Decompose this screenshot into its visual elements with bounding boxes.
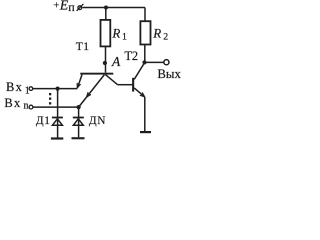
svg-text:Д: Д bbox=[89, 115, 97, 127]
transistor T1 emitter N bbox=[79, 75, 105, 108]
transistor T1 emitter 1 bbox=[77, 75, 82, 89]
svg-text:Т: Т bbox=[76, 41, 83, 53]
terminal +Ep (slashed circle) bbox=[77, 4, 84, 11]
wire R2 drop from rail bbox=[144, 8, 146, 22]
label R2 bbox=[152, 25, 168, 42]
label T1 bbox=[76, 41, 90, 53]
wire top rail bbox=[82, 7, 145, 9]
svg-text:R: R bbox=[111, 26, 120, 41]
ground bar under T2 bbox=[140, 131, 151, 133]
wire output bbox=[145, 61, 164, 63]
svg-text:1: 1 bbox=[25, 85, 30, 96]
svg-text:1: 1 bbox=[44, 115, 50, 127]
node A dot bbox=[103, 61, 107, 65]
wire R1 to T1 base bbox=[105, 46, 107, 72]
transistor T1 collector bbox=[105, 75, 117, 85]
svg-text:n: n bbox=[24, 101, 29, 112]
junction dot Vxn/DN bbox=[77, 105, 81, 109]
svg-text:Д: Д bbox=[36, 115, 44, 127]
wire DN down bbox=[78, 107, 80, 137]
resistor R1 bbox=[101, 20, 111, 47]
svg-text:N: N bbox=[97, 115, 105, 127]
wire T1 collector to T2 base bbox=[118, 84, 133, 86]
svg-text:+: + bbox=[53, 0, 59, 12]
diode DN cathode bar bbox=[73, 117, 84, 119]
svg-text:1: 1 bbox=[83, 41, 89, 53]
diode DN triangle (apex up) bbox=[73, 119, 83, 126]
arrow on T2 emitter bbox=[140, 92, 145, 96]
svg-text:п: п bbox=[68, 0, 75, 14]
wire input Vxn bbox=[33, 106, 79, 108]
output terminal circle bbox=[164, 60, 169, 65]
transistor T2 collector bbox=[134, 63, 144, 80]
svg-text:Вх: Вх bbox=[4, 96, 21, 110]
label +Ep bbox=[53, 0, 75, 14]
junction dot on rail above R1 bbox=[104, 6, 108, 10]
svg-text:1: 1 bbox=[122, 32, 127, 43]
svg-text:R: R bbox=[152, 25, 161, 40]
wire input Vx1 bbox=[33, 88, 77, 90]
transistor T1 base bar bbox=[80, 73, 113, 75]
resistor R2 bbox=[140, 21, 150, 44]
arrow on emitter 1 bbox=[77, 83, 80, 88]
junction dot output node bbox=[142, 60, 146, 64]
transistor T2 base bar bbox=[132, 78, 134, 92]
label Vx1 bbox=[6, 80, 30, 96]
label D1 bbox=[36, 115, 50, 127]
label T2 bbox=[124, 49, 138, 63]
svg-text:Вых: Вых bbox=[157, 67, 181, 81]
input Vxn terminal circle bbox=[29, 105, 33, 109]
transistor T2 emitter bbox=[134, 88, 144, 97]
svg-text:2: 2 bbox=[163, 31, 168, 42]
arrow on emitter N bbox=[87, 92, 91, 97]
wire T2 emitter to ground bbox=[144, 97, 146, 131]
junction dot Vx1/D1 bbox=[56, 87, 60, 91]
label Vxn bbox=[4, 96, 28, 112]
diode D1 triangle (apex up) bbox=[52, 119, 62, 126]
ground bar under D1 bbox=[51, 137, 63, 139]
wire R1 drop from rail bbox=[105, 8, 107, 21]
wire Vx1 to diode D1 (crosses Vxn wire) bbox=[57, 89, 59, 138]
ellipsis dots between inputs bbox=[49, 93, 51, 105]
svg-text:A: A bbox=[111, 54, 121, 69]
input Vx1 terminal circle bbox=[29, 87, 33, 91]
svg-text:Вх: Вх bbox=[6, 80, 23, 94]
ground bar under DN bbox=[72, 137, 85, 139]
label R1 bbox=[111, 26, 127, 43]
diode D1 cathode bar bbox=[52, 117, 63, 119]
svg-text:2: 2 bbox=[132, 49, 138, 63]
label DN bbox=[89, 115, 106, 127]
wire R2 to output node bbox=[144, 45, 146, 63]
